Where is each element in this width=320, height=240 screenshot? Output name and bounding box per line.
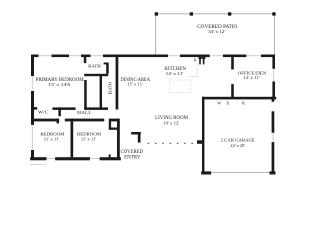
- kitchen counter edge: [188, 58, 197, 77]
- kitchen patio door jamb 1 cap: [199, 57, 202, 59]
- hall south wall seg 3: [110, 119, 119, 122]
- garage east wall lower: [272, 142, 275, 174]
- garage north wall: [202, 97, 276, 100]
- svg-text:BATH: BATH: [108, 81, 113, 94]
- svg-text:11' x 11': 11' x 11': [81, 136, 97, 141]
- patio post 3: [228, 12, 231, 15]
- window north 3: [91, 55, 104, 57]
- kitchen patio door jamb 2 stem: [203, 57, 205, 65]
- entry north wall piece: [131, 132, 141, 135]
- west wall lower: [31, 150, 34, 160]
- garage door: [211, 172, 270, 174]
- window west 2: [31, 125, 33, 150]
- svg-text:19' x 12': 19' x 12': [163, 120, 179, 125]
- office west wall upper: [231, 57, 234, 70]
- svg-text:BATH: BATH: [88, 64, 101, 69]
- front door jamb tick: [109, 154, 111, 157]
- living room sliding wall dashes: [148, 142, 199, 144]
- svg-text:COVERED: COVERED: [121, 150, 144, 155]
- primary bedroom south wall: [52, 107, 75, 110]
- window north 2: [69, 55, 81, 57]
- patio post 4: [272, 12, 275, 15]
- svg-text:W: W: [217, 101, 221, 106]
- west wall middle: [31, 91, 34, 125]
- entry closet west wall: [109, 119, 111, 130]
- hall bath south wall: [84, 107, 108, 110]
- bath south wall: [84, 74, 108, 76]
- svg-text:D: D: [226, 101, 229, 106]
- patio post 2: [190, 12, 193, 15]
- svg-text:15' x 14'6: 15' x 14'6: [48, 82, 71, 87]
- garage side door line: [272, 133, 274, 142]
- svg-text:HALL: HALL: [77, 110, 92, 115]
- kitchen island outline: [170, 80, 192, 93]
- garage NE corner stub: [272, 97, 275, 102]
- window east office: [273, 69, 275, 82]
- covered entry west wall: [117, 119, 120, 160]
- east wall upper: [272, 55, 275, 69]
- north wall seg 2: [52, 55, 70, 58]
- svg-text:11' x 11': 11' x 11': [44, 136, 60, 141]
- garage south wall right: [270, 171, 276, 174]
- kitchen patio slider: [168, 55, 180, 57]
- window west 1: [31, 76, 33, 91]
- svg-text:R: R: [242, 100, 245, 105]
- hall bath west wall: [100, 76, 102, 110]
- north wall seg 4: [103, 55, 168, 58]
- patio post 1: [155, 12, 158, 15]
- svg-text:24' x 20': 24' x 20': [230, 143, 245, 148]
- south wall seg 3: [100, 157, 121, 160]
- west wall upper: [31, 55, 34, 77]
- window north 5: [246, 55, 261, 57]
- garage west wall / living room east wall: [202, 97, 204, 174]
- dining west wall: [116, 57, 119, 110]
- entry east wall piece: [138, 132, 141, 143]
- garage south wall left: [201, 171, 211, 174]
- walk-in closet north stub: [31, 107, 37, 110]
- south wall seg 2: [55, 157, 90, 160]
- garage east wall upper: [272, 111, 275, 133]
- bath partition jamb: [104, 63, 109, 65]
- window north 1: [39, 55, 52, 57]
- svg-text:W/C: W/C: [38, 109, 49, 114]
- svg-text:ENTRY: ENTRY: [124, 156, 141, 161]
- bath partition wall: [106, 63, 109, 74]
- svg-text:34' x 12': 34' x 12': [208, 29, 225, 34]
- svg-text:15' x 11': 15' x 11': [127, 82, 143, 87]
- north wall seg 6: [223, 55, 246, 58]
- north wall seg 1: [32, 55, 39, 58]
- hall south wall seg 2: [65, 119, 104, 122]
- svg-text:14' x 11': 14' x 11': [166, 71, 184, 76]
- kitchen patio door jamb 1 stem: [199, 57, 201, 65]
- primary bedroom east wall lower: [84, 80, 87, 110]
- kitchen patio door jamb 2 cap: [202, 57, 205, 59]
- north wall seg 7: [261, 55, 275, 58]
- office west wall lower: [231, 84, 234, 97]
- north wall seg 5: [180, 55, 210, 58]
- window south bedroom: [47, 158, 56, 160]
- svg-text:2 CAR GARAGE: 2 CAR GARAGE: [221, 137, 255, 142]
- living room SE corner piece: [197, 140, 203, 144]
- entry closet south wall: [109, 128, 119, 130]
- north wall seg 3: [81, 55, 91, 58]
- porch edge line: [30, 163, 47, 165]
- window north 4: [211, 55, 223, 57]
- wall between bedrooms: [71, 119, 74, 158]
- hall south wall seg 1: [31, 119, 59, 122]
- hall south wall door jamb: [57, 119, 60, 124]
- window south bedroom 2: [90, 158, 100, 160]
- svg-text:12' x 11': 12' x 11': [243, 75, 260, 80]
- east wall lower: [272, 82, 275, 99]
- south wall seg 1: [30, 157, 46, 160]
- bath west stub: [84, 57, 87, 63]
- walk-in closet east wall: [58, 107, 61, 116]
- covered patio outline: [156, 14, 275, 55]
